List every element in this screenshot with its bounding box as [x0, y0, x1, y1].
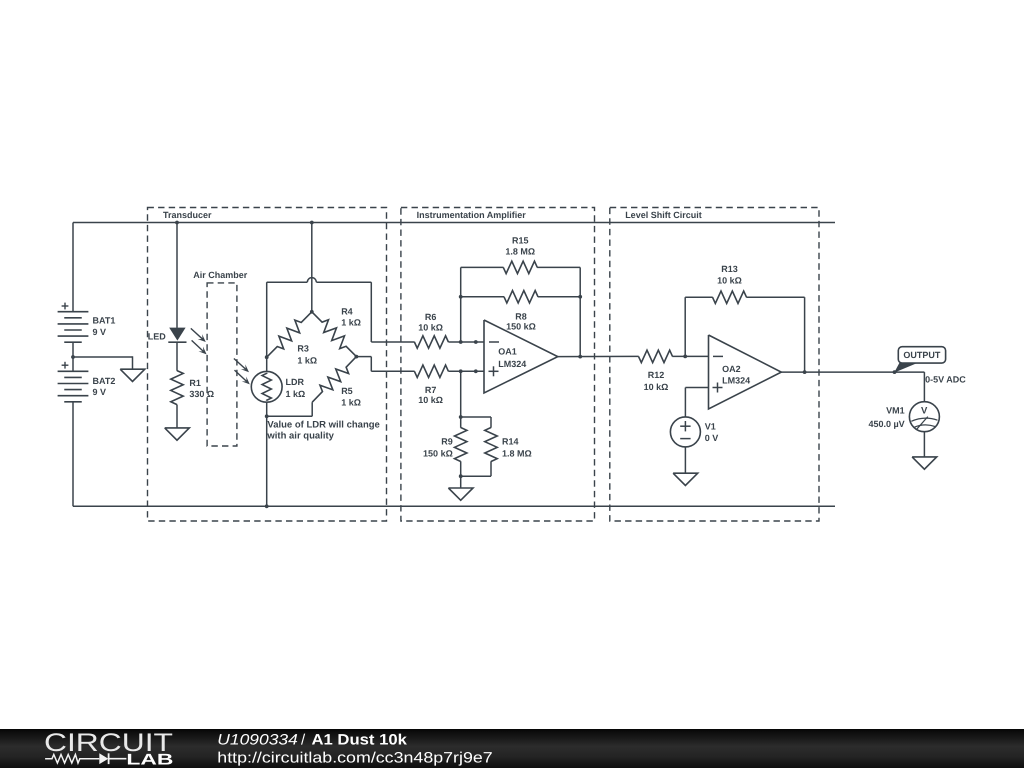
wire OA2 output to output node — [781, 371, 895, 373]
svg-text:R12: R12 — [648, 370, 665, 380]
footer CIRCUIT logo text — [44, 729, 173, 757]
node annotation text — [266, 419, 379, 441]
svg-text:10 kΩ: 10 kΩ — [717, 276, 742, 286]
wire LDR to bottom rail — [266, 402, 268, 506]
node top rail junction to bridge — [310, 221, 314, 225]
node R8 right junction — [578, 295, 582, 299]
node Instrumentation Amplifier section box — [401, 208, 595, 522]
wire R12 to OA2 inverting input — [672, 355, 708, 357]
ground battery midpoint — [120, 369, 145, 381]
footer logo resistor-diode symbol — [45, 753, 126, 764]
svg-text:LM324: LM324 — [498, 359, 526, 369]
svg-text:R9: R9 — [441, 437, 453, 447]
svg-text:150 kΩ: 150 kΩ — [506, 322, 536, 332]
wire top rail to bridge top node — [311, 223, 313, 312]
wire bridge bottom vertex to LDR bottom node — [267, 402, 313, 416]
wire battery midpoint to ground — [73, 356, 133, 369]
svg-text:VM1: VM1 — [886, 406, 905, 416]
svg-text:OA1: OA1 — [498, 347, 517, 357]
wire right node to lower bridge output — [356, 357, 414, 372]
wire OA1 output — [558, 355, 639, 357]
svg-text:V1: V1 — [705, 421, 716, 431]
voltage source V1 — [670, 417, 718, 447]
node divider top junction — [459, 415, 463, 419]
node R13 to output junction — [803, 370, 807, 374]
ground below VM1 — [912, 457, 937, 469]
node Level Shift Circuit section box — [610, 208, 819, 522]
svg-text:1 kΩ: 1 kΩ — [341, 398, 361, 408]
svg-text:R1: R1 — [189, 378, 201, 388]
svg-text:Transducer: Transducer — [163, 210, 212, 220]
svg-text:330 Ω: 330 Ω — [189, 389, 214, 399]
svg-text:A1 Dust 10k: A1 Dust 10k — [312, 731, 408, 748]
wire bottom return rail — [73, 505, 835, 507]
node bridge right — [355, 355, 359, 359]
svg-text:LAB: LAB — [126, 752, 173, 768]
svg-text:R8: R8 — [515, 311, 527, 321]
wire output node to VM1 — [895, 372, 925, 402]
node battery midpoint junction — [71, 355, 75, 359]
svg-text:LED: LED — [148, 331, 167, 341]
svg-text:BAT2: BAT2 — [93, 376, 116, 386]
wire top supply rail — [73, 222, 835, 224]
battery BAT2 — [58, 362, 116, 402]
svg-text:R5: R5 — [341, 386, 353, 396]
svg-text:450.0 µV: 450.0 µV — [868, 419, 904, 429]
svg-text:U1090334: U1090334 — [217, 731, 297, 748]
svg-text:10 kΩ: 10 kΩ — [644, 382, 669, 392]
svg-text:150 kΩ: 150 kΩ — [423, 448, 453, 458]
svg-text:0-5V ADC: 0-5V ADC — [925, 374, 966, 384]
svg-text:with air quality: with air quality — [266, 431, 334, 442]
wire R13 left vertical — [684, 297, 686, 356]
svg-text:OA2: OA2 — [722, 364, 741, 374]
svg-text:10 kΩ: 10 kΩ — [418, 322, 443, 332]
wire R13 right vertical — [804, 297, 806, 372]
svg-text:Instrumentation Amplifier: Instrumentation Amplifier — [417, 210, 527, 220]
wire left drop from top rail to BAT1 — [72, 223, 74, 313]
wire top rail to LED anode — [176, 223, 178, 328]
svg-text:0 V: 0 V — [705, 433, 719, 443]
resistor R13 — [685, 264, 804, 303]
resistor R7 — [414, 365, 448, 405]
ground below V1 — [673, 473, 698, 485]
svg-text:R7: R7 — [425, 385, 437, 395]
resistor R12 — [639, 350, 673, 392]
svg-text:R3: R3 — [297, 344, 309, 354]
wire feedback left vertical — [460, 267, 462, 342]
svg-text:1 kΩ: 1 kΩ — [297, 356, 317, 366]
photoresistor LDR — [234, 359, 305, 403]
svg-text:Value of LDR will change: Value of LDR will change — [267, 419, 379, 430]
svg-text:10 kΩ: 10 kΩ — [418, 395, 443, 405]
node top rail junction to LED branch — [175, 221, 179, 225]
svg-text:9 V: 9 V — [93, 327, 107, 337]
resistor R14 — [461, 428, 532, 477]
svg-text:LDR: LDR — [286, 377, 305, 387]
svg-text:OUTPUT: OUTPUT — [903, 350, 941, 360]
node output junction — [893, 370, 897, 374]
svg-text:Air Chamber: Air Chamber — [193, 270, 248, 280]
svg-text:R15: R15 — [512, 236, 529, 246]
svg-text:Level Shift Circuit: Level Shift Circuit — [625, 210, 702, 220]
ground below R1 — [165, 428, 190, 440]
ground below R9 R14 — [448, 488, 473, 500]
wire divider to ground — [460, 476, 462, 488]
svg-text:V: V — [921, 406, 928, 417]
resistor R15 — [461, 236, 581, 274]
svg-text:LM324: LM324 — [722, 376, 750, 386]
svg-text:R14: R14 — [502, 437, 519, 447]
voltmeter VM1 — [868, 402, 939, 432]
resistor R1 — [171, 371, 214, 405]
resistor R3 — [267, 312, 317, 366]
node bridge left — [265, 355, 269, 359]
node feedback to output junction — [578, 355, 582, 359]
wire feedback right vertical — [579, 267, 581, 356]
svg-text:R13: R13 — [721, 264, 738, 274]
node Transducer section box — [148, 208, 387, 522]
resistor R8 — [461, 291, 581, 332]
resistor R5 — [312, 357, 361, 408]
node LDR bottom junction — [265, 414, 269, 418]
svg-text:1 kΩ: 1 kΩ — [286, 389, 306, 399]
svg-text:BAT1: BAT1 — [93, 315, 116, 325]
op-amp OA1 — [484, 320, 558, 393]
wire left node to LDR — [266, 357, 268, 372]
svg-text:1.8 MΩ: 1.8 MΩ — [502, 449, 532, 459]
footer title line — [217, 731, 407, 748]
node OA1 non-inverting input junctions — [459, 369, 478, 373]
wire OA2 + input to V1 — [685, 388, 708, 418]
footer LAB logo text — [126, 752, 173, 768]
footer url line — [217, 749, 492, 766]
svg-text:1 kΩ: 1 kΩ — [341, 317, 361, 327]
op-amp OA2 — [709, 335, 782, 409]
wire VM1 to ground — [923, 432, 925, 457]
wire BAT1 to BAT2 link — [72, 342, 74, 372]
wire divider top link to R14 — [461, 417, 491, 428]
wire R1 to ground — [176, 405, 178, 428]
wire LED cathode to R1 — [176, 342, 178, 371]
resistor R6 — [414, 312, 448, 348]
footer bar — [0, 729, 1024, 768]
node R13 tap junction — [683, 355, 687, 359]
battery BAT1 — [58, 303, 116, 343]
LED D1 — [148, 328, 207, 355]
wire OA1 + input down to divider — [460, 371, 462, 417]
resistor R9 — [423, 417, 467, 476]
node divider bottom junction — [459, 474, 463, 478]
wire V1 to ground — [684, 447, 686, 473]
wire R7 to OA1 non-inverting input — [448, 370, 484, 372]
node bottom rail junction — [265, 504, 269, 508]
flag OUTPUT — [894, 347, 945, 373]
svg-text:http://circuitlab.com/cc3n48p7: http://circuitlab.com/cc3n48p7rj9e7 — [217, 749, 492, 766]
node OA1 inverting input junctions — [459, 340, 478, 344]
svg-text:R6: R6 — [425, 312, 437, 322]
svg-text:9 V: 9 V — [93, 387, 107, 397]
node R8 left junction — [459, 295, 463, 299]
node bridge top — [310, 310, 314, 314]
wire BAT2 to bottom rail — [72, 401, 74, 506]
wire R6 to OA1 inverting input — [448, 341, 484, 343]
svg-text:1.8 MΩ: 1.8 MΩ — [505, 247, 535, 257]
node 0-5V ADC label — [925, 374, 966, 384]
node Air Chamber box — [193, 270, 248, 446]
resistor R4 — [312, 307, 361, 357]
wire left node to upper bridge output (with hop) — [267, 278, 415, 358]
svg-text:R4: R4 — [341, 307, 353, 317]
